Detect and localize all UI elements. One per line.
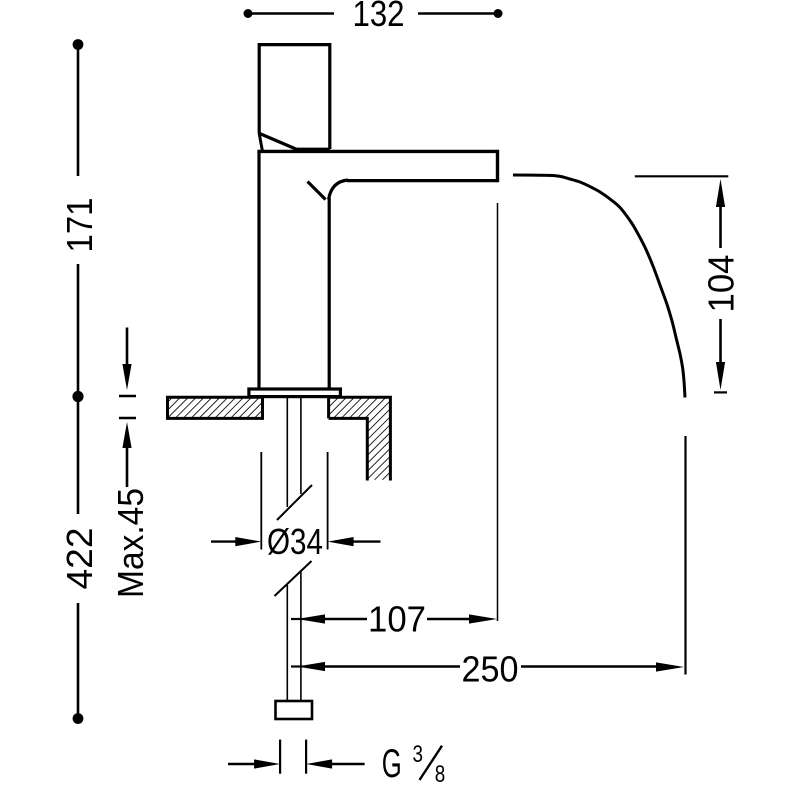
spout underside notch diagonal <box>308 182 326 200</box>
svg-text:107: 107 <box>368 599 426 640</box>
body right edge <box>328 198 331 388</box>
faucet base flange <box>249 389 341 397</box>
dimension 250 extension line <box>684 436 686 675</box>
Max.45 down arrow <box>126 328 129 367</box>
G3/8 fraction slash <box>420 746 443 780</box>
body left edge <box>257 151 260 388</box>
Max.45 lower tick <box>119 417 136 419</box>
svg-text:Ø34: Ø34 <box>267 521 323 562</box>
svg-text:250: 250 <box>462 649 519 690</box>
pipe break slash upper <box>277 485 312 520</box>
Max.45 upper tick <box>119 395 136 397</box>
pipe break slash lower <box>275 561 312 596</box>
spout top line <box>257 150 497 153</box>
G3/8 right tick <box>305 740 307 774</box>
dimension 104 up arrow <box>716 179 725 207</box>
supply pipe lower left line <box>286 585 288 701</box>
svg-text:104: 104 <box>701 255 742 313</box>
deck right slab outline <box>329 397 391 480</box>
Max.45 up arrow <box>122 422 131 448</box>
handle lever bottom diagonal <box>259 133 298 150</box>
dimension 422 bottom dot <box>73 713 84 724</box>
pipe end fitting <box>276 701 313 719</box>
svg-text:G: G <box>382 742 402 786</box>
dimension 104 down arrow <box>719 319 722 364</box>
spout right end edge <box>496 150 499 182</box>
dimension 250 left arrow <box>291 665 303 667</box>
dimension 107 right arrow <box>469 614 497 623</box>
svg-text:3: 3 <box>413 741 424 768</box>
svg-text:8: 8 <box>435 761 446 788</box>
dimension 107 extension line <box>497 203 499 621</box>
dimension 107 line <box>322 618 367 620</box>
dimension 171 top dot <box>73 39 84 50</box>
dimension 132 left dot <box>244 9 253 18</box>
dimension 132 right dot <box>494 9 503 18</box>
supply pipe lower right line <box>300 572 302 701</box>
dimension 104 bottom tick <box>714 391 727 393</box>
supply pipe upper left line <box>286 396 288 507</box>
dia34 left arrow <box>211 540 238 542</box>
spout bottom line <box>347 179 498 182</box>
dimension 250 right arrow <box>656 662 684 671</box>
water stream curve <box>513 175 685 398</box>
svg-text:171: 171 <box>59 198 100 253</box>
dimension 107 left arrow <box>291 618 303 620</box>
dia34 right extension line <box>327 452 329 550</box>
supply pipe upper right line <box>300 396 302 494</box>
G3/8 left arrow <box>228 763 256 765</box>
dimension 132 line <box>248 12 334 15</box>
svg-text:Max.45: Max.45 <box>110 488 151 598</box>
svg-text:132: 132 <box>353 0 405 34</box>
dimension shared middle dot <box>72 391 83 402</box>
dia34 left extension line <box>260 452 262 550</box>
spout underside curve into body <box>329 180 348 199</box>
G3/8 right arrow <box>306 759 332 768</box>
dia34 right arrow <box>328 537 354 546</box>
dimension 250 line <box>322 665 460 667</box>
handle bottom bar <box>294 148 330 151</box>
svg-text:422: 422 <box>59 528 100 590</box>
countertop deck left slab hatch <box>168 397 263 418</box>
handle left lower chamfer <box>259 134 262 152</box>
deck right slab hatch <box>329 397 391 480</box>
faucet handle outline <box>259 45 330 149</box>
dimension 171 line <box>77 45 80 177</box>
deck left slab outline <box>168 397 263 418</box>
dimension 104 top tick <box>635 175 729 177</box>
G3/8 left tick <box>279 740 281 774</box>
